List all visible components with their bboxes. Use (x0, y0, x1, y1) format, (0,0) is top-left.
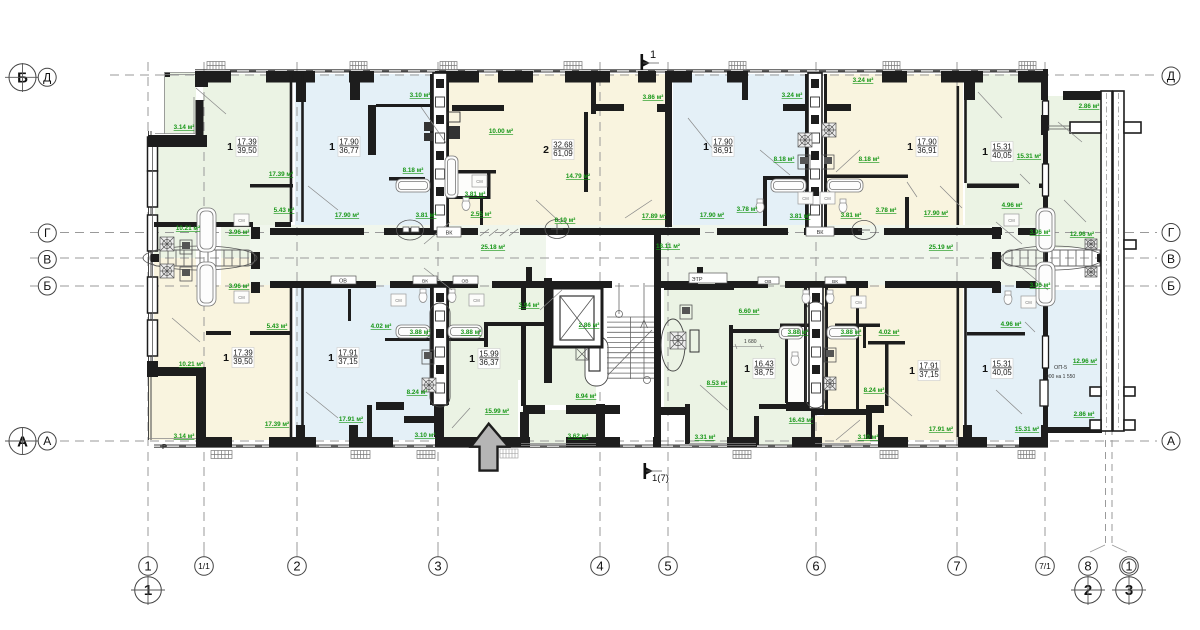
axis circle left D top (38, 68, 56, 86)
wall bot leg stairs (654, 404, 661, 437)
wall bottom pier x1019 (1019, 437, 1048, 447)
svg-text:3.81 м²: 3.81 м² (841, 212, 862, 219)
wall J bump divider (754, 416, 759, 445)
room fill apt A room (203, 74, 291, 226)
axis circle right D (1162, 67, 1180, 85)
axis circle right V (1162, 250, 1180, 268)
axis circle left A bold (9, 428, 36, 455)
svg-text:14.79 м²: 14.79 м² (566, 173, 590, 180)
left wall window box y215 (148, 215, 158, 251)
wall bottom pier x958 (958, 437, 987, 447)
svg-text:СМ: СМ (238, 218, 245, 223)
wall bottom pier x878 (878, 437, 908, 447)
room fill apt J utility (786, 285, 808, 323)
svg-text:38,75: 38,75 (754, 368, 774, 377)
wall F divider (967, 184, 1019, 189)
svg-text:1(7): 1(7) (652, 473, 669, 484)
svg-text:2: 2 (293, 559, 300, 574)
wall core cross h (566, 405, 620, 414)
svg-text:3.81 м²: 3.81 м² (790, 213, 811, 220)
svg-text:3.10 м²: 3.10 м² (410, 92, 431, 99)
svg-text:Г: Г (44, 226, 51, 240)
wall top pier x435 (435, 71, 479, 83)
svg-text:17.91 м²: 17.91 м² (929, 426, 953, 433)
section mark bottom (643, 463, 646, 479)
entrance grate (500, 449, 518, 458)
stoves (160, 237, 174, 251)
wall col/C (446, 74, 449, 231)
wall G kitchen wall b (250, 331, 291, 335)
svg-text:40,05: 40,05 (992, 151, 1012, 160)
wall J loggia left v (685, 404, 690, 444)
column T1 appliances (424, 112, 460, 141)
svg-text:16.43 м²: 16.43 м² (789, 417, 813, 424)
wall top leg C/D (665, 82, 672, 100)
wall bot leg core (596, 404, 605, 437)
svg-text:36,91: 36,91 (713, 146, 733, 155)
svg-text:ОП-5: ОП-5 (1054, 365, 1067, 371)
svg-text:1: 1 (329, 141, 335, 153)
axis circle left A (38, 432, 56, 450)
svg-text:17.39 м²: 17.39 м² (269, 171, 293, 178)
left wall window box y171 (148, 171, 158, 207)
wall C/D (665, 74, 672, 227)
room fill apt G cream (154, 285, 291, 440)
wall vest bottom wall (1048, 427, 1102, 433)
left entrance stair (150, 250, 255, 266)
wall C loggia wall a (591, 104, 624, 111)
wall I hall wall (484, 322, 544, 326)
wall K loggia L v (866, 413, 872, 439)
svg-text:1: 1 (909, 365, 915, 377)
svg-text:3: 3 (434, 559, 441, 574)
axis circle left V (38, 251, 56, 269)
bathroom C white (448, 173, 487, 196)
svg-text:2.86 м²: 2.86 м² (579, 322, 600, 329)
wall K bath wall (835, 324, 880, 328)
svg-text:10.21 м²: 10.21 м² (179, 361, 203, 368)
shaft column T2 (808, 73, 822, 231)
svg-text:39,50: 39,50 (237, 146, 257, 155)
hollow wall A/B G/H (291, 74, 966, 437)
shaft column B1 (433, 287, 447, 405)
svg-text:17.39 м²: 17.39 м² (265, 421, 289, 428)
wall I/hall a (521, 285, 526, 310)
wall top pier x941 (941, 71, 983, 83)
svg-text:А: А (1167, 434, 1175, 448)
room fill apt B blue (295, 74, 433, 231)
svg-text:3.86 м²: 3.86 м² (643, 94, 664, 101)
axis circle bottom 2 (288, 557, 307, 576)
svg-text:1: 1 (744, 363, 750, 375)
wall B room right (368, 105, 376, 155)
wall corridor stub a (526, 267, 532, 282)
wall bot leg right (1041, 425, 1048, 437)
svg-text:37,15: 37,15 (919, 370, 939, 379)
room fill vestibule R green (1046, 96, 1101, 248)
wall col/K (825, 285, 828, 409)
svg-text:17.89 м²: 17.89 м² (642, 213, 666, 220)
wall C loggia wall b (657, 104, 669, 112)
wall vest top wall (1063, 91, 1102, 100)
wall corridor stub b (697, 267, 703, 282)
right entrance stair (1003, 250, 1108, 266)
svg-text:ОВ: ОВ (765, 279, 772, 285)
svg-text:3.14 м²: 3.14 м² (174, 124, 195, 131)
wall B1/loggia wall2 (404, 416, 435, 423)
svg-text:СМ: СМ (395, 298, 402, 303)
svg-text:Д: Д (1167, 69, 1175, 83)
wall top pier x665 (665, 71, 692, 83)
bathroom J white (787, 340, 807, 405)
svg-text:ЭТР: ЭТР (692, 277, 703, 283)
wall K bath right2 (863, 327, 866, 348)
room fill apt G loggia (149, 376, 196, 440)
section circle 3 (1116, 577, 1143, 604)
wall H low step (367, 405, 372, 447)
svg-text:3.81 м²: 3.81 м² (465, 191, 486, 198)
svg-text:1: 1 (907, 141, 913, 153)
svg-text:10.21 м²: 10.21 м² (176, 225, 200, 232)
svg-text:СМ: СМ (476, 179, 483, 184)
room fill apt F green (965, 74, 1043, 233)
wall top pier x565 (565, 71, 610, 83)
svg-text:8.18 м²: 8.18 м² (774, 156, 795, 163)
wall top leg E/F stub (964, 82, 975, 100)
wall D bath top (764, 176, 808, 180)
axis circle bottom 1 (139, 557, 158, 576)
wall bot leg I (434, 405, 444, 437)
svg-text:8.18 м²: 8.18 м² (403, 167, 424, 174)
wall E bath left (824, 176, 827, 226)
wall top leg B stub (350, 82, 360, 100)
wall J room top (733, 329, 790, 333)
svg-text:61,09: 61,09 (553, 149, 573, 158)
svg-text:4: 4 (596, 559, 603, 574)
axis circle left G (38, 224, 56, 242)
svg-text:17.90 м²: 17.90 м² (700, 212, 724, 219)
svg-text:3.78 м²: 3.78 м² (737, 206, 758, 213)
svg-text:ОВ: ОВ (462, 279, 469, 285)
svg-text:8.19 м²: 8.19 м² (555, 217, 576, 224)
room fill loggia 3.62 (521, 410, 596, 444)
wall F divider2 (1039, 184, 1043, 189)
wall K loggia wall (815, 409, 866, 415)
elevator shaft (552, 288, 602, 347)
leader lines (172, 88, 1086, 440)
svg-text:1: 1 (469, 353, 475, 365)
wall vest div pier (1041, 115, 1048, 135)
wall G kitchen wall a (206, 331, 231, 335)
wall D cross wall (783, 104, 805, 111)
wall top pier x882 (882, 71, 907, 83)
svg-text:3.24 м²: 3.24 м² (782, 92, 803, 99)
svg-text:А: А (43, 434, 51, 448)
wall stairs right (654, 233, 661, 415)
svg-text:12.96 м²: 12.96 м² (1073, 358, 1097, 365)
svg-text:8.24 м²: 8.24 м² (864, 387, 885, 394)
axis circle right B (1162, 277, 1180, 295)
wall G step h (149, 367, 206, 376)
svg-text:1: 1 (703, 141, 709, 153)
entrance arrow (471, 424, 509, 471)
wall G step v (196, 367, 206, 440)
window sills bottom (211, 451, 1035, 459)
wall E room vert (905, 197, 909, 231)
svg-text:1: 1 (144, 559, 151, 574)
wall bottom pier x653 (653, 437, 661, 447)
wall H divider vert (348, 289, 351, 321)
room fill lobby white (546, 231, 656, 285)
outer wall face lines (149, 69, 1049, 447)
svg-text:4.02 м²: 4.02 м² (371, 323, 392, 330)
wall col/I (446, 285, 449, 405)
room fill apt G kitchen (154, 258, 196, 285)
svg-text:СМ: СМ (802, 196, 809, 201)
svg-text:3.88 м²: 3.88 м² (410, 329, 431, 336)
svg-text:3.78 м²: 3.78 м² (876, 207, 897, 214)
room fill apt E cream (824, 74, 963, 225)
wall elev right (596, 283, 602, 347)
wall left solid low (147, 361, 158, 377)
entrance column left (251, 227, 260, 293)
svg-text:Г: Г (1168, 226, 1175, 240)
wall bottom pier x269 (269, 437, 316, 447)
shaft column B2 (809, 287, 823, 409)
svg-text:5.43 м²: 5.43 м² (274, 207, 295, 214)
wall top pier x727 (727, 71, 748, 83)
wall bottom pier x435 (435, 437, 530, 447)
wall right pier g (1043, 196, 1048, 233)
room fill loggia 3.31 (689, 409, 756, 443)
wall col/E (824, 74, 827, 231)
room fill vestibule R blue (1048, 290, 1102, 433)
axis circle right G (1162, 224, 1180, 242)
toilets (419, 197, 1012, 366)
svg-text:СМ: СМ (824, 196, 831, 201)
svg-text:25.19 м²: 25.19 м² (929, 244, 953, 251)
svg-text:7: 7 (953, 559, 960, 574)
wall K kit wall h (868, 341, 905, 345)
loggia glazing (149, 72, 871, 446)
axis circle bottom 8 (1079, 557, 1098, 576)
wall L divider (967, 332, 1025, 336)
wall right pier low3 (1043, 368, 1048, 440)
svg-text:8.94 м²: 8.94 м² (576, 393, 597, 400)
axis circle bottom 6 (807, 557, 826, 576)
right section double wall (1070, 91, 1141, 431)
svg-text:1: 1 (328, 352, 334, 364)
wall I bath wall L (385, 338, 432, 341)
wall top leg D stub (742, 82, 748, 100)
svg-text:СМ: СМ (238, 295, 245, 300)
svg-text:Б: Б (43, 279, 51, 293)
room fill apt J low (756, 404, 815, 445)
shaft column T1 (433, 73, 447, 231)
wall bottom pier x792 (792, 437, 822, 447)
axis leader stubs (148, 543, 1045, 557)
room fill apt K cream (824, 285, 963, 440)
wall K loggia L h (866, 405, 884, 413)
svg-text:8.53 м²: 8.53 м² (707, 380, 728, 387)
svg-text:8.18 м²: 8.18 м² (859, 156, 880, 163)
section mark top (640, 54, 643, 70)
svg-text:8.24 м²: 8.24 м² (407, 389, 428, 396)
wall B divider (389, 177, 425, 181)
wall left balcony corner sq (165, 72, 170, 77)
svg-text:Д: Д (43, 71, 51, 85)
svg-text:ВК: ВК (832, 279, 838, 285)
svg-text:3.10 м²: 3.10 м² (415, 432, 436, 439)
wall C bath right (487, 170, 491, 199)
wall C wc right (480, 199, 483, 225)
shaft capsule B1 (430, 303, 450, 407)
svg-text:36,77: 36,77 (339, 146, 359, 155)
svg-text:40,05: 40,05 (992, 368, 1012, 377)
wall right pier low2 (1043, 300, 1048, 336)
sinks (180, 155, 836, 364)
axis circle bottom 7/1 (1036, 557, 1055, 576)
wall K low wall (786, 402, 815, 411)
svg-text:1 680: 1 680 (744, 339, 757, 345)
wall I/hall b (521, 323, 526, 406)
wall E bath top (824, 175, 908, 179)
wall bottom pier x349 (349, 437, 393, 447)
wall corridor top (270, 228, 364, 235)
svg-text:12.96 м²: 12.96 м² (1070, 231, 1094, 238)
wall top pier x266 (266, 71, 315, 83)
wall bot leg J (729, 409, 733, 437)
svg-text:3.88 м²: 3.88 м² (788, 329, 809, 336)
door chevrons C (480, 229, 518, 236)
section circle 1 (135, 577, 162, 604)
svg-text:2.55 м²: 2.55 м² (471, 211, 492, 218)
wall hall wall w (523, 405, 545, 414)
fixtures (197, 156, 1055, 339)
room fill apt C cream (446, 74, 666, 225)
wall I bath right (484, 322, 488, 347)
wall B2/col (804, 285, 807, 409)
svg-text:900 на 1 550: 900 на 1 550 (1046, 374, 1075, 380)
svg-text:3.14 м²: 3.14 м² (174, 433, 195, 440)
wall C room wall (584, 112, 588, 192)
svg-text:17.90 м²: 17.90 м² (335, 212, 359, 219)
axis circle bottom 1/1 (195, 557, 214, 576)
svg-text:5: 5 (664, 559, 671, 574)
axis circle bottom 7 (948, 557, 967, 576)
wall J top wall (664, 284, 734, 290)
axis circle bottom 3 (429, 557, 448, 576)
svg-text:15.99 м²: 15.99 м² (485, 408, 509, 415)
svg-text:4.02 м²: 4.02 м² (879, 329, 900, 336)
svg-text:18.11 м²: 18.11 м² (656, 243, 680, 250)
room fill balcony 3.14 A (164, 72, 196, 134)
svg-text:ВК: ВК (817, 230, 825, 236)
wall I bath wall R (447, 338, 485, 341)
svg-text:17.90 м²: 17.90 м² (924, 210, 948, 217)
axis circle left B top (9, 64, 36, 91)
wall A divider (250, 184, 293, 188)
svg-text:2.86 м²: 2.86 м² (1074, 411, 1095, 418)
svg-text:7/1: 7/1 (1039, 561, 1051, 571)
riser capsule core (585, 336, 608, 386)
svg-text:3.94 м²: 3.94 м² (519, 302, 540, 309)
svg-text:5.43 м²: 5.43 м² (267, 323, 288, 330)
wall A nook horiz (148, 135, 207, 147)
svg-text:8: 8 (1084, 559, 1091, 574)
shaft capsule B2 (806, 302, 825, 408)
svg-text:СМ: СМ (1008, 218, 1015, 223)
svg-text:3.31 м²: 3.31 м² (695, 434, 716, 441)
svg-text:39,50: 39,50 (233, 357, 253, 366)
svg-text:25.18 м²: 25.18 м² (481, 244, 505, 251)
wall H/col (430, 285, 433, 405)
wall J low right (811, 404, 815, 444)
svg-text:1: 1 (650, 49, 656, 61)
svg-text:1: 1 (982, 363, 988, 375)
wall top pier x498 (498, 71, 533, 83)
wall bottom pier x566 (566, 437, 620, 447)
svg-text:ОВ: ОВ (339, 279, 347, 285)
svg-text:3.96 м²: 3.96 м² (229, 229, 250, 236)
axis grid (30, 62, 1157, 552)
corridor riser circles (397, 220, 877, 241)
svg-text:СМ: СМ (1025, 300, 1032, 305)
svg-text:1: 1 (1126, 559, 1133, 573)
wall right pier low1 (1043, 233, 1048, 267)
wall top pier x349 (349, 71, 374, 83)
svg-text:1: 1 (223, 352, 229, 364)
CM boxes (234, 175, 1036, 308)
right wall window box (1043, 101, 1049, 130)
room fill apt A kitchen2 (221, 226, 250, 258)
entrance column right (992, 227, 1001, 293)
svg-text:В: В (1167, 252, 1175, 266)
svg-text:6: 6 (812, 559, 819, 574)
svg-text:3.24 м²: 3.24 м² (853, 77, 874, 84)
wall top leg right (1041, 82, 1048, 100)
svg-text:3.96 м²: 3.96 м² (229, 283, 250, 290)
room fill apt L blue (967, 285, 1046, 440)
axis circle bottom 1r (1120, 557, 1139, 576)
wall B2 left (785, 339, 788, 403)
wall D/col (805, 74, 808, 231)
right entrance stoves (1085, 239, 1097, 249)
wall K bath right (856, 285, 859, 409)
left wall window box y277 (148, 277, 158, 313)
wall right pier top (1043, 69, 1048, 101)
wall B bath wall (376, 104, 433, 107)
axis circle bottom 4 (591, 557, 610, 576)
svg-text:4.96 м²: 4.96 м² (1001, 321, 1022, 328)
axis circle bottom 5 (659, 557, 678, 576)
wall bottom pier x196 (196, 437, 232, 447)
wall C bath top (449, 170, 496, 174)
wall hall wall step (520, 412, 529, 438)
room fill apt A lower (155, 147, 291, 226)
room fill loggia K (815, 416, 871, 443)
svg-text:36,91: 36,91 (917, 146, 937, 155)
svg-text:СМ: СМ (473, 298, 480, 303)
wall A nook vert (196, 100, 204, 147)
svg-text:15.31 м²: 15.31 м² (1017, 153, 1041, 160)
svg-text:3.88 м²: 3.88 м² (461, 329, 482, 336)
svg-text:1: 1 (227, 141, 233, 153)
svg-text:4.96 м²: 4.96 м² (1002, 202, 1023, 209)
wall C bath bottom (449, 196, 487, 199)
svg-text:2.86 м²: 2.86 м² (1079, 103, 1100, 110)
svg-text:1/1: 1/1 (198, 561, 210, 571)
